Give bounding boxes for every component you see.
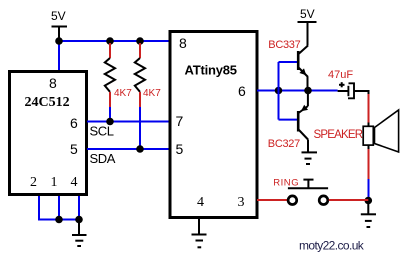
- svg-text:8: 8: [49, 75, 57, 91]
- svg-text:8: 8: [179, 35, 187, 51]
- junction dot rail R1: [106, 37, 114, 45]
- wire R2 to SDA: [139, 107, 141, 149]
- svg-text:4K7: 4K7: [143, 88, 161, 99]
- capacitor C1 47uF: [328, 69, 369, 98]
- svg-text:SPEAKER: SPEAKER: [314, 129, 363, 141]
- junction dot bases: [275, 87, 283, 95]
- junction dot pin1 gnd: [55, 216, 63, 224]
- junction dot 5V rail: [55, 37, 63, 45]
- ground (speaker return): [361, 201, 376, 228]
- svg-text:5: 5: [70, 141, 78, 157]
- IC U2 ATtiny85: [170, 32, 257, 218]
- wire SCL net: [87, 122, 170, 139]
- svg-text:ATtiny85: ATtiny85: [185, 63, 237, 78]
- svg-text:47uF: 47uF: [328, 69, 353, 81]
- transistor Q2 BC327: [268, 91, 308, 153]
- svg-text:6: 6: [70, 115, 78, 131]
- svg-text:5V: 5V: [51, 9, 66, 23]
- wire VCC rail: [59, 40, 171, 42]
- pushbutton SW1 RING: [273, 178, 328, 205]
- svg-text:6: 6: [238, 83, 246, 99]
- svg-text:5: 5: [176, 141, 184, 157]
- wire base BC337: [279, 62, 298, 91]
- svg-text:24C512: 24C512: [25, 95, 70, 110]
- junction dot rail R2: [136, 37, 144, 45]
- svg-text:SCL: SCL: [90, 124, 114, 139]
- junction dot SDA/R2: [136, 145, 144, 153]
- ground (BC327 collector): [302, 152, 318, 164]
- ground (under 24C512): [72, 220, 87, 247]
- junction dot pin4 gnd: [75, 216, 83, 224]
- svg-text:1: 1: [51, 175, 58, 190]
- junction dot emitters: [304, 87, 312, 95]
- wire SDA net: [87, 149, 170, 166]
- wire R1 to SCL: [109, 107, 111, 122]
- speaker LS1: [314, 110, 399, 152]
- resistor R2 4K7: [135, 43, 161, 107]
- wire speaker to gnd junction: [368, 145, 370, 201]
- svg-text:SDA: SDA: [90, 151, 116, 166]
- svg-text:BC337: BC337: [268, 39, 300, 51]
- resistor R1 4K7: [105, 43, 132, 107]
- wire 24C512 pins 2,1,4 to ground: [38, 196, 79, 220]
- svg-text:BC327: BC327: [268, 138, 300, 150]
- svg-text:3: 3: [238, 195, 245, 210]
- svg-text:7: 7: [176, 113, 184, 129]
- svg-text:moty22.co.uk: moty22.co.uk: [299, 239, 365, 253]
- transistor Q1 BC337: [268, 39, 308, 91]
- svg-text:RING: RING: [273, 178, 299, 189]
- svg-text:4: 4: [71, 175, 78, 190]
- IC U1 24C512: [10, 72, 87, 195]
- junction dot speaker/button/gnd: [365, 197, 373, 205]
- wire ATtiny pin 3 to button: [257, 199, 287, 201]
- wire cap to speaker: [368, 90, 370, 94]
- power 5V (left): [51, 9, 67, 41]
- wire 5V to 24C512 pin 8: [58, 41, 60, 70]
- svg-text:5V: 5V: [300, 7, 315, 21]
- junction dot SCL/R1: [106, 118, 114, 126]
- svg-text:4: 4: [197, 195, 204, 210]
- svg-text:4K7: 4K7: [114, 88, 132, 99]
- ground (ATtiny85 pin 4): [192, 219, 207, 247]
- wire button to gnd junction: [329, 199, 369, 201]
- wire ATtiny pin 6 output: [257, 90, 338, 92]
- power 5V (right): [298, 7, 317, 46]
- wire base BC327: [279, 91, 298, 120]
- svg-text:2: 2: [30, 175, 37, 190]
